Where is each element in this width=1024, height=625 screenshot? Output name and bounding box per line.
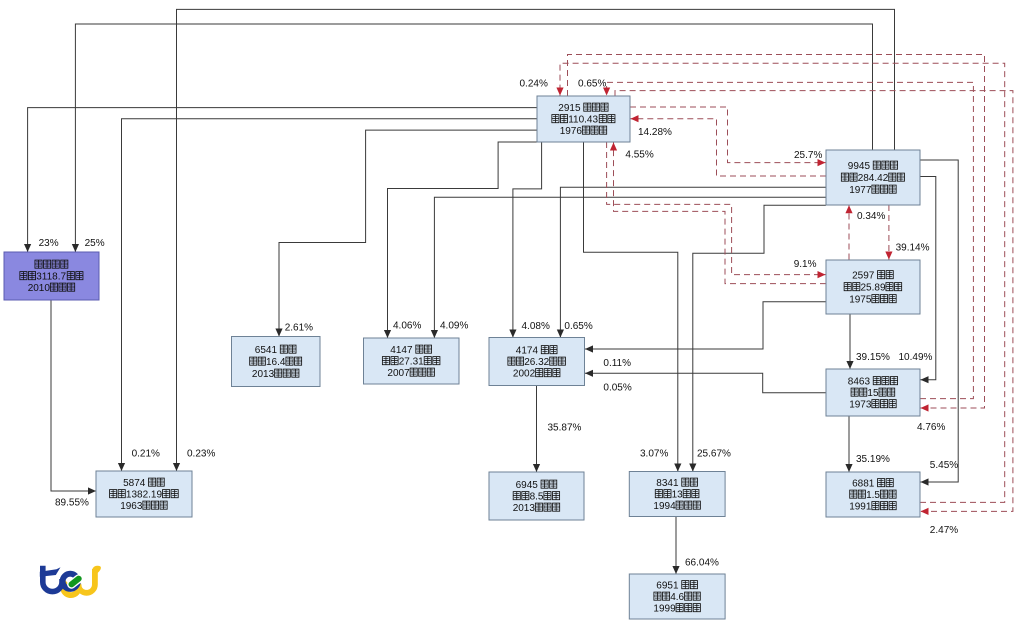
svg-text:1994: 1994 [653,501,676,512]
svg-text:8.5: 8.5 [530,492,544,503]
svg-text:1973: 1973 [849,400,872,411]
svg-text:4.06%: 4.06% [393,321,421,332]
svg-text:6541: 6541 [255,345,278,356]
svg-text:39.14%: 39.14% [896,243,930,254]
svg-text:3.07%: 3.07% [640,449,668,460]
svg-text:14.28%: 14.28% [638,127,672,138]
svg-text:25%: 25% [85,238,105,249]
svg-text:4.08%: 4.08% [522,321,550,332]
svg-text:23%: 23% [39,238,59,249]
svg-text:110.43: 110.43 [568,115,598,126]
svg-text:26.32: 26.32 [524,357,549,368]
svg-text:1963: 1963 [120,501,143,512]
svg-text:1382.19: 1382.19 [126,490,163,501]
svg-text:39.15%: 39.15% [856,352,890,363]
svg-text:0.24%: 0.24% [520,79,548,90]
svg-text:15: 15 [867,388,879,399]
svg-text:2002: 2002 [513,369,536,380]
svg-text:1999: 1999 [653,604,676,615]
svg-text:0.21%: 0.21% [132,449,160,460]
svg-text:6881: 6881 [852,479,875,490]
svg-text:0.23%: 0.23% [187,449,215,460]
svg-text:2.47%: 2.47% [930,525,958,536]
svg-text:1976: 1976 [560,126,583,137]
svg-text:35.87%: 35.87% [548,423,582,434]
svg-text:9.1%: 9.1% [794,259,817,270]
svg-text:1.5: 1.5 [866,490,880,501]
svg-text:1991: 1991 [849,502,872,513]
svg-text:66.04%: 66.04% [685,558,719,569]
svg-text:0.65%: 0.65% [578,79,606,90]
svg-text:5874: 5874 [123,478,146,489]
svg-text:4.76%: 4.76% [917,422,945,433]
svg-text:284.42: 284.42 [858,173,889,184]
svg-text:4.55%: 4.55% [625,150,653,161]
svg-text:2013: 2013 [513,503,536,514]
svg-text:1977: 1977 [849,185,872,196]
svg-text:27.31: 27.31 [399,357,424,368]
svg-text:35.19%: 35.19% [856,454,890,465]
svg-text:0.65%: 0.65% [564,321,592,332]
svg-text:5.45%: 5.45% [930,460,958,471]
svg-text:8463: 8463 [848,377,871,388]
svg-text:2007: 2007 [387,368,410,379]
svg-text:0.11%: 0.11% [603,358,631,369]
svg-text:3118.7: 3118.7 [36,272,66,283]
svg-text:0.34%: 0.34% [857,211,885,222]
svg-text:9945: 9945 [848,161,871,172]
svg-text:25.67%: 25.67% [697,449,731,460]
svg-text:0.05%: 0.05% [603,383,631,394]
svg-text:13: 13 [672,490,684,501]
svg-text:2597: 2597 [852,271,875,282]
svg-text:16.4: 16.4 [266,357,286,368]
svg-text:2.61%: 2.61% [285,323,313,334]
svg-text:4147: 4147 [390,345,413,356]
svg-text:25.7%: 25.7% [794,150,822,161]
svg-text:4.09%: 4.09% [440,321,468,332]
svg-text:2013: 2013 [252,369,275,380]
svg-text:89.55%: 89.55% [55,498,89,509]
svg-text:4.6: 4.6 [670,592,684,603]
svg-text:2915: 2915 [558,103,581,114]
svg-text:4174: 4174 [516,346,539,357]
svg-text:10.49%: 10.49% [899,352,933,363]
svg-text:2010: 2010 [28,283,51,294]
svg-text:25.89: 25.89 [861,283,886,294]
svg-text:1975: 1975 [849,295,872,306]
svg-text:6951: 6951 [656,581,679,592]
svg-text:8341: 8341 [656,478,679,489]
svg-text:6945: 6945 [516,480,539,491]
